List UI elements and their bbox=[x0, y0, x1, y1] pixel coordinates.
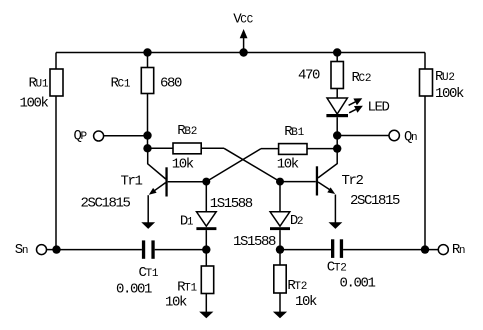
node Vcc junction bbox=[239, 48, 247, 56]
resistor RT1 bbox=[201, 250, 213, 313]
svg-text:Rn: Rn bbox=[452, 242, 465, 258]
diode D1 bbox=[196, 182, 216, 250]
svg-text:2SC1815: 2SC1815 bbox=[350, 193, 400, 209]
svg-text:0.001: 0.001 bbox=[340, 275, 376, 291]
resistor Ru1 bbox=[50, 69, 63, 96]
resistor Ru2 bbox=[420, 69, 433, 96]
terminal Qn bbox=[337, 130, 399, 140]
svg-text:10k: 10k bbox=[295, 294, 317, 310]
svg-text:10k: 10k bbox=[165, 295, 187, 311]
svg-text:0.001: 0.001 bbox=[116, 282, 152, 298]
svg-text:10k: 10k bbox=[277, 157, 299, 173]
LED light arrow 2 bbox=[349, 106, 363, 113]
wire right rail (Ru2 branch) bbox=[424, 53, 426, 251]
terminal Rn bbox=[425, 245, 448, 255]
resistor Rc1 bbox=[141, 53, 153, 136]
svg-text:D1: D1 bbox=[180, 214, 194, 230]
svg-text:RT2: RT2 bbox=[287, 278, 307, 294]
node Qn junction bbox=[333, 131, 341, 139]
svg-text:100k: 100k bbox=[435, 86, 464, 102]
node Rn junction bbox=[421, 245, 429, 253]
svg-text:RB2: RB2 bbox=[177, 123, 197, 139]
svg-text:CT1: CT1 bbox=[139, 265, 159, 281]
node Rc2 top junction bbox=[333, 48, 341, 56]
node Rb1 right junction bbox=[333, 144, 341, 152]
terminal Sn bbox=[37, 245, 57, 255]
diode D2 bbox=[270, 182, 290, 250]
resistor Rb2 bbox=[148, 143, 225, 154]
Vcc terminal arrow bbox=[240, 29, 248, 53]
svg-text:D2: D2 bbox=[290, 213, 303, 229]
capacitor CT2 bbox=[331, 239, 425, 258]
svg-text:RT1: RT1 bbox=[177, 280, 197, 296]
svg-text:RC2: RC2 bbox=[352, 70, 372, 86]
svg-text:RU1: RU1 bbox=[29, 76, 49, 92]
node Rb2 left junction bbox=[143, 144, 151, 152]
svg-text:Tr2: Tr2 bbox=[342, 173, 364, 189]
svg-text:QP: QP bbox=[74, 128, 88, 144]
wire Rb1 to Tr1 base (diagonal) bbox=[206, 149, 261, 182]
transistor Tr2 bbox=[280, 149, 337, 223]
wire Qn node down to Rb1 node bbox=[336, 136, 338, 149]
svg-text:2SC1815: 2SC1815 bbox=[81, 196, 131, 212]
ground (RT2) bbox=[273, 312, 287, 319]
svg-text:10k: 10k bbox=[172, 157, 194, 173]
svg-text:CT2: CT2 bbox=[327, 259, 347, 275]
svg-text:LED: LED bbox=[368, 100, 390, 116]
wire left rail (Ru1 branch) bbox=[55, 53, 57, 251]
node Tr2 base junction bbox=[276, 178, 284, 186]
LED light arrow 1 bbox=[349, 98, 363, 105]
transistor Tr1 bbox=[148, 148, 207, 222]
node Tr1 base junction bbox=[202, 178, 210, 186]
resistor Rb1 bbox=[261, 144, 337, 155]
node Qp junction bbox=[143, 131, 151, 139]
ground (Tr2 emitter) bbox=[329, 222, 343, 229]
svg-text:RU2: RU2 bbox=[435, 69, 455, 85]
wire Qp node down to Rb2 node bbox=[147, 136, 149, 149]
svg-text:RC1: RC1 bbox=[111, 76, 131, 92]
ground (RT1) bbox=[199, 312, 213, 319]
resistor Rc2 bbox=[331, 53, 343, 98]
svg-text:100k: 100k bbox=[20, 96, 49, 112]
svg-text:470: 470 bbox=[298, 68, 320, 84]
svg-text:1S1588: 1S1588 bbox=[233, 234, 276, 250]
node Sn junction bbox=[52, 245, 60, 253]
node D2/RT2 junction bbox=[276, 245, 284, 253]
capacitor CT1 bbox=[142, 240, 206, 258]
node D1/RT1 junction bbox=[202, 245, 210, 253]
ground (Tr1 emitter) bbox=[141, 222, 155, 229]
svg-text:Sn: Sn bbox=[15, 242, 28, 258]
wire top supply rail bbox=[56, 52, 425, 54]
LED D3 bbox=[326, 98, 348, 136]
wire D2 node to CT2 bbox=[280, 249, 331, 251]
wire Sn to CT1 bbox=[57, 249, 142, 251]
svg-text:Qn: Qn bbox=[404, 129, 417, 145]
svg-text:Tr1: Tr1 bbox=[121, 174, 143, 190]
wire Rb2 to Tr2 base (diagonal) bbox=[224, 148, 280, 181]
svg-text:RB1: RB1 bbox=[284, 124, 304, 140]
svg-text:680: 680 bbox=[160, 76, 182, 92]
node Rc1 top junction bbox=[143, 48, 151, 56]
svg-text:VCC: VCC bbox=[233, 12, 253, 28]
terminal Qp bbox=[94, 131, 148, 141]
svg-text:1S1588: 1S1588 bbox=[210, 196, 253, 212]
resistor RT2 bbox=[274, 250, 286, 313]
